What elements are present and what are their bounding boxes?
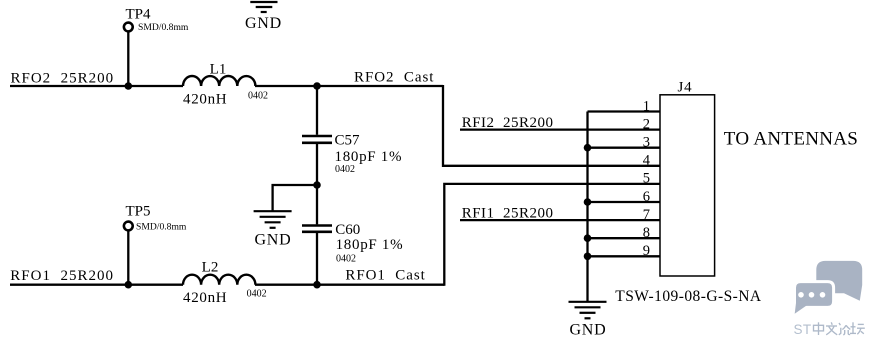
svg-text:0402: 0402 bbox=[248, 91, 268, 102]
svg-text:TP4: TP4 bbox=[126, 6, 152, 22]
wire C60 bottom lead bbox=[316, 233, 318, 285]
svg-text:TO ANTENNAS: TO ANTENNAS bbox=[724, 129, 858, 150]
svg-text:8: 8 bbox=[643, 225, 650, 241]
svg-text:420nH: 420nH bbox=[183, 92, 227, 108]
svg-text:3: 3 bbox=[643, 135, 650, 151]
ground symbol top (partially cut) bbox=[250, 2, 277, 12]
wire GND branch from C57/C60 junction bbox=[273, 185, 318, 211]
svg-text:RFO1 25R200: RFO1 25R200 bbox=[10, 268, 114, 284]
junction dot bus pin8 bbox=[584, 234, 592, 242]
junction dot RFO2/C57 bbox=[313, 82, 321, 90]
watermark bubble dot 1 bbox=[798, 292, 804, 298]
svg-text:SMD/0.8mm: SMD/0.8mm bbox=[138, 22, 189, 33]
svg-text:5: 5 bbox=[643, 171, 650, 187]
testpoint TP4 bbox=[124, 23, 133, 32]
watermark bubble dot 3 bbox=[820, 292, 826, 298]
inductor L2 bbox=[183, 275, 255, 285]
ground symbol mid-left bbox=[254, 211, 292, 228]
svg-text:J4: J4 bbox=[678, 80, 693, 96]
svg-text:RFO2 Cast: RFO2 Cast bbox=[354, 70, 434, 86]
svg-text:L1: L1 bbox=[210, 61, 227, 77]
svg-text:420nH: 420nH bbox=[183, 290, 227, 306]
watermark logo small chat bubble bbox=[793, 282, 834, 317]
inductor L1 bbox=[183, 76, 255, 86]
wire C57 bottom lead bbox=[316, 144, 318, 185]
wire ground bus vertical bbox=[586, 112, 588, 302]
wire RFO1 net right segment bbox=[255, 284, 444, 286]
svg-text:180pF 1%: 180pF 1% bbox=[336, 237, 404, 253]
watermark text wen (文) bbox=[826, 322, 837, 335]
wire RFO2 net left segment bbox=[10, 85, 183, 87]
svg-text:2: 2 bbox=[643, 116, 650, 132]
capacitor C60 bbox=[302, 226, 332, 232]
svg-text:ST: ST bbox=[794, 322, 812, 337]
svg-text:GND: GND bbox=[245, 15, 282, 32]
testpoint TP5 bbox=[124, 222, 133, 231]
svg-text:0402: 0402 bbox=[335, 164, 355, 175]
svg-text:4: 4 bbox=[643, 153, 651, 169]
wire RFO2 net right segment (inductor to corner) bbox=[255, 85, 443, 87]
svg-text:GND: GND bbox=[569, 322, 606, 339]
svg-text:1: 1 bbox=[643, 98, 650, 114]
junction dot bus pin3 bbox=[584, 144, 592, 152]
connector J4 body bbox=[660, 95, 715, 276]
svg-text:C60: C60 bbox=[335, 222, 360, 238]
svg-text:6: 6 bbox=[643, 189, 650, 205]
wire RFI2 net to pin2 bbox=[460, 128, 660, 130]
junction dot RFO1/TP5 bbox=[125, 281, 133, 289]
wire RFO1_Cast vertical rise bbox=[444, 184, 660, 286]
capacitor C57 bbox=[302, 136, 332, 143]
svg-text:GND: GND bbox=[254, 231, 291, 248]
watermark text lun (论) bbox=[839, 323, 851, 335]
junction dot C57/C60/GND bbox=[313, 181, 321, 189]
wire RFO1 net left segment bbox=[10, 284, 183, 286]
svg-text:RFI1 25R200: RFI1 25R200 bbox=[462, 206, 554, 222]
svg-text:RFI2 25R200: RFI2 25R200 bbox=[462, 115, 554, 131]
wire RFI1 net to pin7 bbox=[460, 219, 660, 221]
wire pin8 bbox=[588, 237, 661, 239]
wire TP4 stem bbox=[127, 31, 129, 86]
svg-text:0402: 0402 bbox=[247, 289, 267, 300]
watermark text tan (坛) bbox=[850, 322, 865, 334]
watermark text zhong (中) bbox=[814, 322, 824, 335]
svg-text:RFO1 Cast: RFO1 Cast bbox=[345, 268, 425, 284]
junction dot RFO1/C60 bbox=[313, 281, 321, 289]
wire TP5 stem bbox=[127, 230, 129, 285]
watermark bubble dot 2 bbox=[809, 292, 815, 298]
svg-text:TP5: TP5 bbox=[126, 204, 151, 220]
wire C57 top lead bbox=[316, 86, 318, 135]
junction dot RFO2/TP4 bbox=[125, 82, 133, 90]
svg-text:TSW-109-08-G-S-NA: TSW-109-08-G-S-NA bbox=[615, 288, 762, 305]
wire pin6 bbox=[588, 201, 661, 203]
ground symbol bottom (bus) bbox=[569, 302, 607, 319]
watermark logo big chat bubble bbox=[816, 261, 862, 301]
wire pin9 bbox=[588, 255, 661, 257]
wire pin3 bbox=[588, 147, 661, 149]
junction dot bus pin9 bbox=[584, 252, 592, 260]
wire RFO2_Cast vertical drop bbox=[443, 85, 660, 166]
junction dot bus pin6 bbox=[584, 198, 592, 206]
svg-text:C57: C57 bbox=[335, 133, 361, 149]
svg-text:RFO2 25R200: RFO2 25R200 bbox=[11, 70, 115, 86]
svg-text:L2: L2 bbox=[202, 260, 219, 276]
svg-text:0402: 0402 bbox=[336, 254, 356, 265]
svg-text:9: 9 bbox=[643, 243, 650, 259]
svg-text:180pF 1%: 180pF 1% bbox=[335, 149, 403, 165]
svg-text:7: 7 bbox=[643, 207, 650, 223]
wire pin1 bbox=[588, 110, 661, 112]
wire C60 top lead bbox=[316, 185, 318, 224]
svg-text:SMD/0.8mm: SMD/0.8mm bbox=[136, 222, 187, 233]
